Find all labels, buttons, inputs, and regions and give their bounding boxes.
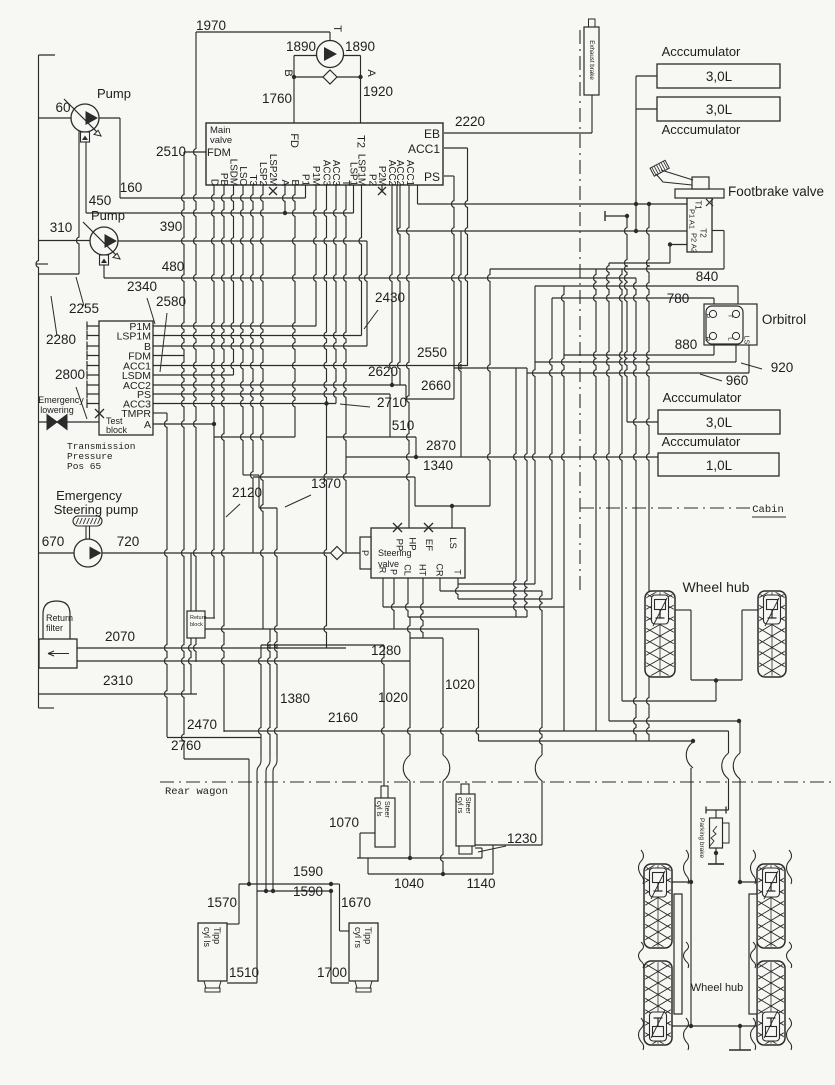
svg-text:A: A [279, 179, 290, 186]
wire 2310 line [39, 693, 198, 695]
rear tire 3 [756, 854, 786, 976]
svg-text:P: P [360, 550, 370, 556]
wire [492, 845, 494, 874]
svg-text:880: 880 [675, 337, 698, 352]
svg-text:LSP1M: LSP1M [355, 154, 366, 186]
junction [324, 401, 328, 405]
wire ACC2-1 col [396, 185, 398, 231]
svg-text:P2M: P2M [376, 166, 387, 186]
wire 2870 line [346, 456, 658, 458]
svg-text:LSO: LSO [237, 166, 248, 186]
svg-text:1570: 1570 [207, 895, 237, 910]
wire return drop [268, 629, 271, 755]
emergency steering pump M2 [73, 516, 102, 526]
wire A col [283, 185, 286, 213]
wire 1510 link [227, 982, 257, 984]
wire rear drop 2 [647, 204, 650, 741]
svg-text:1670: 1670 [341, 895, 371, 910]
wire steer ls port [360, 832, 375, 834]
wire 480 rear drop [634, 278, 637, 741]
accumulator A3 3,0L [658, 410, 780, 434]
wire ACC1 out [444, 147, 468, 149]
wire tank stub top [39, 54, 56, 56]
wire CR drop [439, 578, 441, 591]
cabin boundary horizontal [580, 507, 752, 509]
wire drain manifold [39, 273, 80, 275]
wire parking jog [722, 753, 729, 779]
wire T2 drop [360, 56, 362, 125]
motor M1 (fan motor 1890) [317, 41, 344, 68]
wire P1 drop [305, 185, 307, 198]
svg-text:510: 510 [392, 418, 415, 433]
wire orbitrol R drop [713, 341, 715, 355]
svg-text:2070: 2070 [105, 629, 135, 644]
wire P1M col [314, 185, 317, 326]
wire 2660 upper [454, 367, 527, 369]
wire 670 suction [39, 552, 75, 554]
wire steer ls feed [382, 645, 385, 786]
wire CR drop ext [540, 591, 543, 755]
parking brake B1 [706, 807, 729, 814]
wire 1140 line [368, 873, 493, 875]
wire 480 drop [103, 265, 105, 278]
wire [258, 475, 260, 508]
leader 2710 [340, 404, 370, 407]
svg-text:3,0L: 3,0L [706, 415, 733, 430]
wire parking ground [715, 848, 717, 864]
svg-text:1700: 1700 [317, 965, 347, 980]
leader 2255 [76, 277, 84, 306]
svg-text:D: D [208, 179, 219, 186]
svg-text:T2: T2 [355, 135, 367, 148]
wire [723, 231, 725, 270]
wire 2430 riser [365, 241, 368, 346]
rear tire 1 [643, 854, 673, 976]
wire return wagon jog [266, 755, 270, 891]
wire 1020 run [410, 637, 443, 639]
wire rear brake right [739, 779, 741, 882]
wire 2660 drop [525, 368, 528, 617]
wire 1670 link [340, 930, 350, 932]
wire P2A2 run [609, 262, 670, 264]
wire FDM drop 2760 feeder [182, 152, 185, 759]
svg-text:160: 160 [120, 180, 143, 195]
wire front hub right [742, 609, 758, 611]
svg-text:Steer: Steer [464, 797, 471, 814]
wire check valve right [337, 76, 361, 78]
wire T2 loop [712, 230, 724, 232]
svg-text:1070: 1070 [329, 815, 359, 830]
svg-text:Acccumulator: Acccumulator [662, 434, 741, 449]
svg-text:Rear wagon: Rear wagon [165, 786, 228, 798]
svg-text:EF: EF [423, 539, 434, 551]
wire return block out b [189, 638, 192, 694]
svg-text:A: A [144, 419, 151, 431]
wire flex hose [751, 942, 756, 968]
wire 1590 upper [239, 883, 331, 885]
svg-text:Tipp: Tipp [212, 927, 222, 944]
wire PS out [444, 175, 454, 177]
junction [714, 678, 718, 682]
wire return block feed [190, 553, 192, 611]
wire flex hose [639, 1018, 644, 1050]
svg-text:60: 60 [55, 100, 70, 115]
svg-text:2660: 2660 [421, 378, 451, 393]
svg-text:R: R [704, 337, 711, 342]
svg-text:1040: 1040 [394, 876, 424, 891]
wire orbitrol T drop [737, 286, 739, 306]
svg-text:1020: 1020 [378, 690, 408, 705]
svg-text:2870: 2870 [426, 438, 456, 453]
plug X at EF [424, 523, 433, 532]
svg-text:450: 450 [89, 193, 112, 208]
wire 1700 link [331, 982, 349, 984]
svg-text:LSDM: LSDM [227, 159, 238, 186]
wire LSDM [153, 374, 234, 376]
junction [390, 383, 394, 387]
test point B [87, 342, 99, 351]
svg-text:1340: 1340 [423, 458, 453, 473]
wire LS drop [451, 506, 453, 528]
junction [264, 889, 268, 893]
wire P2A2 parking drop [607, 263, 610, 721]
wire [414, 477, 416, 506]
tipp cylinder left [198, 923, 227, 981]
footbrake valve body [687, 198, 712, 252]
wire ACC1 col [417, 185, 419, 204]
steering valve U3 body [371, 528, 465, 578]
svg-text:R: R [378, 567, 388, 574]
wire EB 2220 line [444, 132, 592, 134]
wire 2550 line [153, 365, 468, 367]
wire to P box [344, 552, 361, 554]
junction [738, 880, 742, 884]
junction [689, 880, 693, 884]
junction [634, 229, 638, 233]
junction [668, 242, 672, 246]
wire tank spine [36, 55, 39, 708]
svg-text:Orbitrol: Orbitrol [762, 312, 806, 327]
leader 1370 [285, 495, 311, 507]
junction [271, 889, 275, 893]
test point ACC2 [87, 381, 99, 390]
wire PS tb drop [389, 394, 391, 437]
svg-text:Wheel hub: Wheel hub [691, 982, 744, 994]
svg-text:CR: CR [435, 564, 445, 577]
svg-text:Tipp: Tipp [363, 927, 373, 944]
svg-text:2580: 2580 [156, 294, 186, 309]
wire B col [293, 185, 296, 437]
wire LSDM col [231, 185, 234, 375]
wire 2470 line [167, 737, 261, 739]
cabin underline [752, 516, 786, 518]
wire FDM tb [153, 355, 184, 357]
accumulator A4 1,0L [658, 453, 779, 476]
wire 880 R drop [562, 286, 565, 731]
wire LS left [415, 505, 452, 507]
wire 390 line [118, 240, 367, 242]
svg-text:ACC1: ACC1 [408, 142, 440, 156]
wire 1380 wagon jog [273, 755, 277, 891]
wire acc3 feed [627, 421, 658, 423]
leader 2120 [226, 504, 240, 517]
return filter F1 [43, 601, 70, 639]
wire [741, 610, 743, 680]
wire T2 line [397, 230, 687, 232]
svg-text:Steer: Steer [383, 801, 390, 818]
svg-text:Pos 65: Pos 65 [67, 461, 102, 472]
wire 1020b wagon jog [443, 755, 450, 781]
check valve CV1 [323, 70, 337, 84]
wire steer ls run [261, 644, 384, 646]
wire parking supply [728, 731, 730, 753]
wire D col to return block [212, 185, 215, 618]
wire TMPR drop 2470 feeder [165, 413, 168, 737]
ground parking [708, 863, 724, 865]
rear wagon boundary [160, 781, 835, 783]
wire pump1 case drain [77, 131, 80, 274]
wire LSP1M [153, 335, 362, 337]
wire 1230 in [481, 848, 483, 858]
svg-text:P1M: P1M [310, 166, 321, 186]
svg-text:2760: 2760 [171, 738, 201, 753]
svg-text:valve: valve [210, 135, 232, 146]
svg-text:HP: HP [407, 537, 418, 550]
svg-text:Return: Return [190, 615, 207, 621]
rear tire 4 [756, 951, 786, 1073]
svg-text:cyl ls: cyl ls [375, 801, 382, 817]
svg-text:B: B [289, 179, 300, 186]
wire [331, 883, 340, 885]
junction [283, 211, 287, 215]
svg-text:block: block [190, 622, 203, 628]
wire [672, 881, 691, 883]
wire B 2430 [153, 345, 367, 347]
svg-text:Footbrake valve: Footbrake valve [728, 184, 824, 199]
svg-text:T3: T3 [247, 175, 258, 187]
svg-text:2800: 2800 [55, 367, 85, 382]
junction [625, 214, 629, 218]
svg-text:670: 670 [42, 534, 65, 549]
wire T3 col [251, 185, 254, 553]
plug X at TMPR [95, 409, 104, 418]
wire FDM 2510 [184, 151, 206, 153]
wire link [367, 858, 369, 874]
svg-text:ACC3: ACC3 [320, 160, 331, 187]
svg-text:P1: P1 [299, 174, 310, 186]
wire EB drop [591, 95, 593, 133]
svg-text:2550: 2550 [417, 345, 447, 360]
svg-text:cyl ls: cyl ls [202, 927, 212, 947]
wire flex hose [751, 850, 756, 884]
wire 840-L-T link [533, 286, 536, 584]
wire 1510 drop [256, 891, 258, 983]
wire stub [36, 263, 48, 265]
wire parking run [609, 720, 739, 722]
wire [740, 881, 757, 883]
svg-text:2160: 2160 [328, 710, 358, 725]
wire CR run [440, 590, 542, 592]
wire P2A2 out [670, 244, 687, 246]
wire CL run [408, 616, 527, 618]
leader 2280 [51, 296, 57, 336]
svg-text:block: block [106, 425, 128, 435]
wire LSP2 col [261, 185, 264, 629]
svg-text:Wheel hub: Wheel hub [683, 579, 750, 595]
wire return block right [205, 617, 215, 619]
svg-text:cyl rs: cyl rs [353, 927, 363, 948]
wire 1020 right drop [441, 638, 444, 755]
svg-text:T: T [727, 314, 734, 318]
svg-text:1380: 1380 [280, 691, 310, 706]
wire P drop [392, 578, 395, 629]
wire pump1 outlet [99, 117, 120, 119]
plug X at P2MX [378, 187, 386, 195]
wire orbitrol LS drop [748, 345, 750, 373]
wire [238, 884, 240, 924]
svg-text:ACC1: ACC1 [404, 160, 415, 186]
wire link 437 [214, 436, 295, 438]
svg-text:2280: 2280 [46, 332, 76, 347]
svg-text:960: 960 [726, 373, 749, 388]
wire 2760 line [184, 758, 249, 760]
svg-text:2310: 2310 [103, 673, 133, 688]
wire orbitrol L drop [735, 341, 737, 362]
svg-text:2620: 2620 [368, 364, 398, 379]
svg-text:390: 390 [160, 219, 183, 234]
plug X at T1 [706, 199, 713, 206]
svg-text:1230: 1230 [507, 831, 537, 846]
svg-text:1590: 1590 [293, 864, 323, 879]
wire 480 line [104, 277, 636, 279]
inline check valve CV2 [331, 547, 344, 560]
leader 2340 [147, 298, 155, 324]
test block body [99, 321, 153, 435]
svg-text:PS: PS [424, 170, 440, 184]
wire PS drop [452, 176, 455, 368]
axle bar right [749, 894, 757, 1014]
wire 1380 drop [275, 508, 278, 755]
svg-text:310: 310 [50, 220, 73, 235]
exhaust brake valve [589, 19, 596, 27]
wire LSO col [241, 185, 244, 475]
wire 2160 line [224, 730, 729, 732]
junction [414, 455, 418, 459]
wire 1020 wagon jog [403, 755, 410, 781]
wire 880 line [564, 354, 714, 356]
orbitrol U2 [704, 304, 757, 345]
wire flex hose [684, 850, 689, 884]
emergency lowering valve V1 [47, 415, 67, 430]
front wheel right tire [757, 581, 787, 703]
svg-text:2710: 2710 [377, 395, 407, 410]
wire acc3 drop [625, 216, 628, 422]
wire LS riser [488, 269, 491, 506]
wire ACC3 2710 [153, 403, 336, 405]
test point LSDM [87, 371, 99, 380]
junction [247, 882, 251, 886]
wire T drop [457, 578, 459, 584]
wire hub return [622, 700, 716, 702]
svg-text:720: 720 [117, 534, 140, 549]
svg-text:Acccumulator: Acccumulator [662, 122, 741, 137]
wire PS tb [153, 393, 390, 395]
wire [669, 245, 671, 264]
wire flex hose [684, 942, 689, 968]
wire motor B [294, 55, 317, 57]
pump P2 (main pump 450) [90, 227, 118, 255]
wire 1230 down [541, 782, 543, 845]
wire flex hose [787, 1018, 792, 1050]
wire front hub left [675, 609, 691, 611]
main valve U1 body [206, 123, 443, 185]
wire LSP1M col [359, 185, 362, 336]
svg-text:840: 840 [696, 269, 719, 284]
svg-text:Emergency: Emergency [56, 488, 122, 503]
wire T run [458, 583, 535, 585]
svg-text:LSP2: LSP2 [257, 162, 268, 186]
ground rear [729, 1049, 751, 1051]
pump P1 (main pump 60) [71, 104, 99, 132]
wire 960 line [527, 372, 749, 374]
plug X at LSP2MX [269, 187, 277, 195]
wire to ground [739, 1026, 741, 1050]
wire rear brake bottom [691, 1025, 740, 1027]
svg-text:T: T [453, 569, 463, 575]
wire flex hose [787, 850, 792, 884]
accumulator A1 3,0L [657, 64, 780, 88]
junction [714, 851, 718, 855]
wire CL drop [406, 578, 409, 617]
svg-text:LS: LS [743, 336, 750, 345]
svg-text:filter: filter [46, 623, 63, 633]
svg-text:P: P [389, 569, 399, 575]
wire P1M 2340 [153, 325, 316, 327]
svg-text:480: 480 [162, 259, 185, 274]
wire 2620 line [153, 384, 406, 386]
svg-text:ACC3: ACC3 [330, 160, 341, 187]
test point ACC3 [87, 399, 99, 408]
svg-text:Exhaust brake: Exhaust brake [588, 40, 595, 80]
plug T bar [604, 211, 606, 221]
leader 2800 [76, 387, 87, 419]
svg-text:Steering pump: Steering pump [54, 502, 139, 517]
wire acc1 feed [636, 75, 657, 77]
wire P1A1 line [418, 203, 688, 205]
svg-text:HT: HT [418, 564, 428, 576]
leader 960 [700, 374, 722, 381]
svg-text:1920: 1920 [363, 84, 393, 99]
wire flex hose [639, 942, 644, 968]
wire 1070 riser [359, 833, 361, 858]
svg-text:2340: 2340 [127, 279, 157, 294]
wire rear right jog [733, 753, 740, 779]
cabin boundary vertical [579, 30, 581, 595]
svg-text:lowering: lowering [40, 405, 74, 415]
wire 310 suction [39, 240, 91, 242]
wire 780 line [552, 297, 714, 299]
wire staircase 1370a [243, 474, 259, 476]
leader 920 [741, 363, 762, 369]
leader 2430 [364, 310, 378, 329]
svg-text:LS: LS [447, 537, 458, 549]
svg-text:T: T [331, 25, 343, 32]
svg-text:3,0L: 3,0L [706, 102, 733, 117]
wire R run [383, 606, 564, 608]
svg-text:Cabin: Cabin [752, 504, 784, 516]
wire 1590 lower [257, 890, 331, 892]
svg-text:2470: 2470 [187, 717, 217, 732]
